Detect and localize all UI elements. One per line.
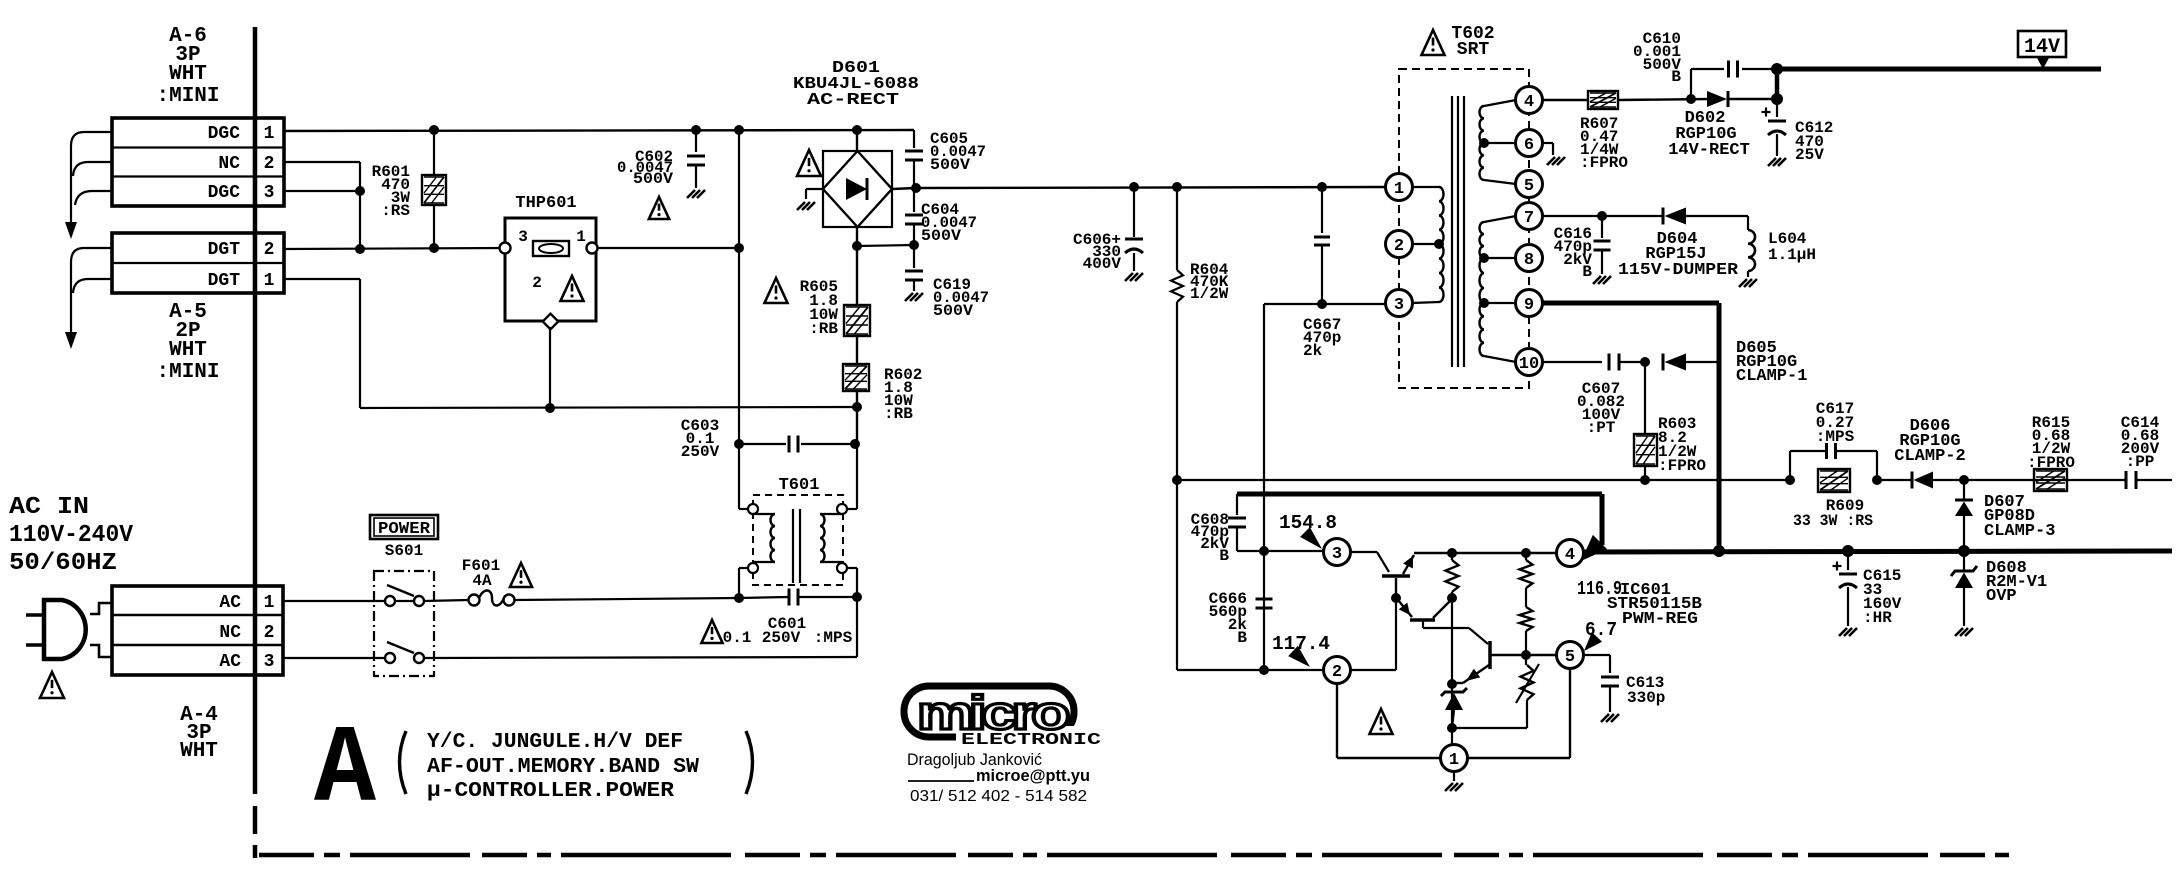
- junction IC top rail / divider: [1521, 548, 1531, 558]
- svg-text:4: 4: [1565, 546, 1575, 565]
- S601 label: [385, 542, 423, 560]
- svg-text:µ-CONTROLLER.POWER: µ-CONTROLLER.POWER: [427, 780, 674, 803]
- svg-text:1: 1: [1394, 180, 1404, 199]
- svg-text::MPS: :MPS: [1816, 428, 1855, 446]
- T601 winding right: [820, 514, 842, 562]
- C612 value label: [1795, 119, 1833, 164]
- C613 value label: [1626, 674, 1665, 707]
- svg-text:2: 2: [264, 623, 275, 643]
- transistor Q3 in IC601: [1455, 641, 1524, 683]
- R604 value label: [1190, 261, 1229, 303]
- C608 value label: [1191, 511, 1230, 565]
- T602 secondary 4-6-5: [1480, 100, 1517, 184]
- T601 terminal bottom-left: [739, 563, 758, 573]
- connector A-6 label: [156, 25, 219, 108]
- junction C601 left: [734, 593, 744, 603]
- C601 value label: [723, 615, 853, 647]
- ground D601 left: [797, 202, 815, 210]
- posistor THP601: [505, 218, 596, 321]
- capacitor C612: [1762, 99, 1787, 156]
- connector A-6: [112, 118, 284, 206]
- T602 label: [1451, 24, 1494, 60]
- connector A-5 label: [156, 301, 219, 384]
- transformer T602 outline: [1399, 69, 1529, 388]
- wire bridge top to C605: [913, 130, 915, 148]
- svg-text:6: 6: [1524, 136, 1534, 155]
- svg-text:110V-240V: 110V-240V: [9, 522, 134, 549]
- svg-text::FPRO: :FPRO: [1580, 154, 1628, 172]
- svg-text::RS: :RS: [381, 202, 410, 220]
- R607 value label: [1580, 115, 1628, 172]
- svg-text:PWM-REG: PWM-REG: [1622, 610, 1698, 629]
- svg-text:330p: 330p: [1627, 689, 1665, 707]
- page divider vertical line: [253, 27, 258, 858]
- svg-text:CLAMP-1: CLAMP-1: [1736, 367, 1807, 386]
- svg-text:3: 3: [1394, 296, 1404, 315]
- wire top AC bus y=130: [284, 130, 914, 131]
- svg-text:CLAMP-3: CLAMP-3: [1984, 522, 2055, 541]
- T601 label: [779, 476, 820, 495]
- resistor R602: [843, 364, 869, 444]
- svg-text:031/ 512 402 - 514 582: 031/ 512 402 - 514 582: [910, 788, 1087, 805]
- R609 value label: [1826, 497, 1864, 515]
- T601 terminal bottom-right: [837, 563, 857, 573]
- logo phone: [910, 788, 1087, 805]
- wire D602 to 14V node: [1728, 98, 1777, 100]
- svg-text:115V-DUMPER: 115V-DUMPER: [1618, 261, 1739, 280]
- junction C617 right: [1872, 475, 1882, 485]
- svg-text:1: 1: [576, 228, 586, 246]
- wire DGT1 route: [284, 279, 857, 408]
- THP601 pin 1 terminal: [587, 243, 598, 254]
- junction internal A bottom: [1447, 593, 1457, 603]
- svg-text:B: B: [1671, 68, 1681, 86]
- svg-text:S601: S601: [385, 542, 423, 560]
- svg-text:0.1: 0.1: [723, 629, 752, 647]
- switch S601 box: [374, 571, 434, 676]
- capacitor C605: [905, 151, 923, 187]
- C606 value label: [1073, 231, 1121, 273]
- wire AC3 to switch: [283, 657, 385, 659]
- AC IN label: [9, 494, 134, 577]
- ground C616: [1593, 276, 1611, 284]
- T602 pin 10: [1516, 349, 1543, 376]
- capacitor C616: [1594, 216, 1611, 274]
- wire R607 to D602: [1618, 99, 1711, 100]
- wire AC3 row: [424, 597, 857, 658]
- junction C607/D605/R603: [1640, 357, 1650, 367]
- wire pin3 to Q1: [1350, 552, 1389, 572]
- svg-text:25V: 25V: [1795, 146, 1824, 164]
- svg-text::RB: :RB: [884, 405, 913, 423]
- junction C601 right: [852, 592, 862, 602]
- A-6 pin name DGC 1: [208, 124, 275, 144]
- THP601 label: [515, 194, 576, 213]
- junction DGT1 / R602 bottom: [852, 402, 862, 412]
- wire internal A node down: [1451, 598, 1453, 684]
- warning triangle in IC601: [1370, 709, 1393, 734]
- D602 label: [1668, 109, 1750, 160]
- junction THP row / R601: [429, 243, 439, 253]
- resistor R605: [844, 246, 870, 364]
- IC601 pin 5: [1557, 642, 1584, 669]
- T602 pin 3: [1386, 290, 1413, 317]
- capacitor C601: [739, 589, 857, 606]
- svg-text:2: 2: [264, 240, 275, 260]
- R602 value label: [884, 366, 922, 423]
- divider resistor chain: [1516, 553, 1539, 728]
- svg-text:WHT: WHT: [180, 740, 218, 763]
- wire clamp bus thick y=551: [1583, 551, 2172, 552]
- switch S601 pole 2: [385, 642, 424, 663]
- svg-text:AC-RECT: AC-RECT: [807, 91, 899, 110]
- svg-text::MINI: :MINI: [156, 85, 219, 108]
- T602 primary winding: [1412, 187, 1444, 303]
- svg-text:1: 1: [1449, 751, 1459, 770]
- junction C603 left: [734, 439, 744, 449]
- junction pin7/C616: [1597, 211, 1607, 221]
- A-6 left leads to degauss coil: [71, 132, 112, 224]
- AC plug: [26, 600, 112, 659]
- IC601 pin 1: [1441, 745, 1468, 772]
- junction top bus / C602: [691, 125, 701, 135]
- wire AC1 to C601 row: [514, 598, 739, 600]
- resistor internal A: [1446, 553, 1459, 598]
- capacitor C617: [1790, 443, 1877, 480]
- wire NC2 to node: [284, 162, 360, 250]
- junction zener bottom: [1447, 723, 1457, 733]
- svg-text:B: B: [1582, 263, 1592, 281]
- wire DGT2 row to THP601: [284, 248, 505, 249]
- IC601 label: [1607, 581, 1702, 629]
- svg-text:WHT: WHT: [169, 339, 207, 362]
- diode D605: [1663, 354, 1686, 371]
- voltage label 6.7: [1584, 619, 1617, 651]
- T602 core: [1452, 96, 1464, 367]
- svg-text:500V: 500V: [633, 170, 673, 188]
- A-5 left leads: [71, 248, 112, 334]
- svg-text:CLAMP-2: CLAMP-2: [1894, 447, 1965, 466]
- warning triangle near T602: [1422, 30, 1445, 55]
- svg-text:1/2W: 1/2W: [1190, 285, 1229, 303]
- T602 tap junction pin9: [1479, 298, 1489, 308]
- ground D608: [1955, 628, 1973, 636]
- page bottom dashed border: [259, 853, 2014, 858]
- svg-text:1: 1: [264, 271, 275, 291]
- T602 pin 6: [1516, 130, 1543, 157]
- svg-text:AC: AC: [219, 652, 241, 672]
- capacitor C614: [2126, 471, 2136, 489]
- svg-text:POWER: POWER: [378, 520, 431, 539]
- svg-text:9: 9: [1524, 296, 1534, 315]
- resistor R609: [1818, 469, 1850, 492]
- wire zener bottom to divider: [1452, 727, 1527, 729]
- connector A-4: [112, 586, 283, 675]
- capacitor C667: [1314, 187, 1330, 304]
- ground C612: [1768, 158, 1786, 166]
- T602 pin 9: [1516, 290, 1543, 317]
- svg-text:A: A: [314, 709, 377, 834]
- svg-text:NC: NC: [218, 154, 240, 174]
- svg-text:3: 3: [264, 652, 275, 672]
- A-4 pin name NC 2: [219, 623, 274, 643]
- wire THP601 pin2 down: [549, 327, 551, 408]
- D601 label: [793, 59, 919, 110]
- R603 value label: [1658, 415, 1706, 475]
- THP601 pin 2 terminal: [543, 314, 559, 330]
- warning triangle near R605: [765, 278, 788, 303]
- arrow A-6 leads: [65, 222, 77, 239]
- capacitor C619: [905, 245, 923, 291]
- T602 pin 7: [1516, 203, 1543, 230]
- wire AC1 to switch: [283, 600, 385, 602]
- svg-text:NC: NC: [219, 623, 241, 643]
- D607 label: [1984, 493, 2055, 541]
- warning triangle near F601: [510, 563, 532, 587]
- wire T601 left vertical: [738, 444, 740, 598]
- svg-text:3: 3: [518, 228, 528, 246]
- svg-text:8: 8: [1524, 251, 1534, 270]
- C604 value label: [921, 201, 977, 245]
- resistor R604: [1171, 187, 1183, 670]
- svg-text:3: 3: [264, 183, 275, 203]
- R615 value label: [2027, 414, 2075, 472]
- net label 14V: [2018, 31, 2066, 69]
- R605 value label: [800, 278, 839, 338]
- svg-text:AC IN: AC IN: [9, 494, 89, 521]
- svg-text:SRT: SRT: [1457, 40, 1490, 60]
- capacitor C615: [1833, 551, 1858, 626]
- junction C617 left: [1785, 475, 1795, 485]
- ground C606: [1125, 273, 1143, 281]
- C667 value label: [1303, 316, 1341, 360]
- transistor Q1 in IC601: [1382, 555, 1414, 598]
- junction pin3 row / C666: [1259, 546, 1269, 556]
- svg-text:10: 10: [1519, 355, 1539, 374]
- wire Q3 collector to pin5: [1524, 654, 1557, 656]
- svg-text:WHT: WHT: [169, 63, 207, 86]
- voltage label 116.9: [1577, 578, 1622, 600]
- junction DGC3/vertical: [355, 186, 365, 196]
- D604 label: [1618, 230, 1739, 280]
- svg-text::PT: :PT: [1587, 419, 1616, 437]
- diode D607: [1955, 480, 1973, 551]
- svg-text:5: 5: [1565, 648, 1575, 667]
- svg-text::FPRO: :FPRO: [2027, 454, 2075, 472]
- resistor R607: [1588, 91, 1618, 109]
- resistor R603: [1634, 362, 1657, 480]
- T602 secondary 7-8-9-10: [1480, 216, 1517, 362]
- junction top bus / vertical feeder: [734, 125, 744, 135]
- A-6 pin name NC 2: [218, 154, 274, 174]
- arrow into IC pin4: [1581, 535, 1607, 561]
- micro electronic logo: [904, 686, 1106, 750]
- svg-text:5: 5: [1524, 177, 1534, 196]
- switch S601 pole 1: [385, 585, 424, 606]
- svg-text:THP601: THP601: [515, 194, 576, 213]
- inductor L604: [1748, 230, 1755, 277]
- zener diode D608: [1951, 551, 1977, 626]
- wire pin1 to pin5 column: [1467, 668, 1570, 758]
- wire pin9 to clamp bus thick: [1543, 303, 1719, 551]
- junction R603/feedback: [1640, 475, 1650, 485]
- capacitor C607: [1609, 354, 1645, 371]
- wire D605 to thick bus: [1686, 361, 1719, 363]
- wire DGC3 to node: [284, 190, 360, 192]
- ground T602 pin6: [1543, 143, 1565, 165]
- svg-text:250V: 250V: [762, 629, 801, 647]
- ground C619: [905, 293, 923, 301]
- T601 terminal top-right: [837, 504, 857, 514]
- D608 label: [1986, 559, 2047, 606]
- junction HV/R604: [1172, 182, 1182, 192]
- svg-text::PP: :PP: [2126, 453, 2155, 471]
- diode D606: [1912, 472, 1933, 489]
- wire C608 bus thick: [1237, 494, 1602, 545]
- T602 pin 2: [1386, 231, 1413, 258]
- wire T602 pin3 row: [1264, 304, 1386, 670]
- T602 pin 1: [1386, 174, 1413, 201]
- warning triangle in THP601: [561, 276, 584, 301]
- wire Q1 base to pin2 row: [1350, 598, 1396, 670]
- junction clamp bus / D608: [1958, 545, 1970, 557]
- wire pin5 to C613: [1583, 655, 1610, 673]
- Q1 base node junction: [1391, 593, 1401, 603]
- svg-text:1: 1: [264, 124, 275, 144]
- wire IC top rail: [1414, 552, 1557, 554]
- section text: [427, 731, 699, 803]
- svg-text:500V: 500V: [930, 156, 970, 174]
- svg-text:3: 3: [1332, 545, 1342, 564]
- svg-text:2: 2: [1394, 237, 1404, 256]
- wire IC pin3 row left: [1237, 550, 1325, 552]
- svg-text:B: B: [1237, 629, 1247, 647]
- T601 winding left: [753, 514, 775, 562]
- warning triangle near C601: [701, 620, 722, 643]
- svg-text:4A: 4A: [472, 572, 492, 590]
- C666 value label: [1209, 590, 1248, 647]
- svg-text::FPRO: :FPRO: [1658, 457, 1706, 475]
- C610 value label: [1633, 30, 1681, 86]
- svg-text:1.1µH: 1.1µH: [1768, 246, 1816, 264]
- junction THP row / feeder: [734, 243, 744, 253]
- svg-text:14V: 14V: [2024, 36, 2060, 59]
- wire bridge minus to C604: [857, 245, 914, 246]
- capacitor C602: [687, 130, 705, 188]
- wire vertical feeder x=739: [738, 130, 740, 444]
- wire pin1 down: [1451, 684, 1453, 745]
- svg-text:2: 2: [1332, 663, 1342, 682]
- resistor R615: [2034, 469, 2067, 491]
- svg-text:500V: 500V: [933, 302, 973, 320]
- capacitor C608: [1228, 494, 1246, 551]
- wire C603 row: [739, 443, 857, 445]
- logo name: [907, 750, 1042, 769]
- svg-text:14V-RECT: 14V-RECT: [1668, 141, 1750, 160]
- capacitor C604: [905, 188, 923, 245]
- wire pin7 row: [1543, 215, 1663, 217]
- junction HV/C606: [1129, 182, 1139, 192]
- wire T601 right vertical: [856, 444, 858, 598]
- A-4 pin name AC 3: [219, 652, 274, 672]
- C607 value label: [1577, 380, 1625, 437]
- warning triangle below plug: [40, 672, 64, 698]
- svg-text:1: 1: [264, 593, 275, 613]
- svg-text:400V: 400V: [1083, 255, 1122, 273]
- logo email: [908, 766, 1090, 785]
- junction D602/C610 left: [1686, 94, 1696, 104]
- ground C615: [1839, 628, 1857, 636]
- junction DGT1 / THP601 pin2: [545, 403, 555, 413]
- section paren right: [746, 731, 753, 794]
- svg-text::RB: :RB: [809, 320, 838, 338]
- T602 secondary tap 6 junction: [1479, 138, 1489, 148]
- ground C613: [1601, 714, 1619, 722]
- bridge rectifier D601: [806, 130, 916, 246]
- svg-text:microe@ptt.yu: microe@ptt.yu: [976, 766, 1090, 785]
- THP601 pin 3 terminal: [500, 243, 511, 254]
- svg-text:T601: T601: [779, 476, 820, 495]
- svg-text:Y/C. JUNGULE.H/V DEF: Y/C. JUNGULE.H/V DEF: [427, 731, 683, 754]
- junction HV/C667: [1317, 182, 1327, 192]
- svg-text:DGT: DGT: [208, 240, 241, 260]
- D605 label: [1736, 339, 1807, 386]
- section paren left: [400, 731, 407, 794]
- T602 tap junction pin8: [1479, 253, 1489, 263]
- resistor R601: [422, 130, 446, 249]
- junction 14V node: [1771, 93, 1783, 105]
- C619 value label: [933, 276, 989, 320]
- svg-text:B: B: [1219, 547, 1229, 565]
- diode D604: [1663, 208, 1686, 225]
- C602 value label: [617, 148, 673, 188]
- junction C667 bottom: [1317, 299, 1327, 309]
- C615 value label: [1863, 567, 1902, 627]
- fuse F601: [469, 591, 515, 606]
- wire pin10 row: [1543, 361, 1602, 363]
- svg-text:OVP: OVP: [1986, 587, 2017, 606]
- ground IC601 pin1: [1445, 771, 1463, 791]
- svg-text:DGT: DGT: [208, 271, 241, 291]
- svg-text:33 3W :RS: 33 3W :RS: [1793, 512, 1873, 530]
- F601 label: [462, 557, 500, 590]
- capacitor C610: [1691, 61, 1777, 100]
- wire feedback row y=480: [1177, 479, 2172, 481]
- A-4 pin name AC 1: [219, 593, 274, 613]
- voltage label 154.8: [1279, 512, 1337, 549]
- junction R604/feedback wire: [1172, 475, 1182, 485]
- junction C604/C619/bridge minus: [909, 240, 919, 250]
- junction zener top: [1447, 679, 1457, 689]
- IC601 pin 2: [1324, 657, 1351, 684]
- T602 pin 8: [1516, 245, 1543, 272]
- junction clamp bus / pin9 wire: [1713, 545, 1725, 557]
- junction DGT2 node: [355, 244, 365, 254]
- wire switch1 to fuse: [424, 600, 469, 601]
- junction pin2 row / C666: [1259, 665, 1269, 675]
- svg-text:500V: 500V: [921, 227, 961, 245]
- wire pin1 to pin2 row: [1337, 683, 1441, 758]
- arrow A-5 leads: [65, 332, 77, 349]
- capacitor C603: [789, 436, 798, 453]
- junction bridge minus: [852, 241, 862, 251]
- transformer T601: [753, 495, 843, 585]
- C614 value label: [2121, 414, 2160, 471]
- C605 value label: [930, 130, 986, 174]
- junction D606/D607: [1959, 475, 1969, 485]
- zener diode in IC601: [1441, 688, 1467, 728]
- svg-text:micro: micro: [917, 686, 1068, 739]
